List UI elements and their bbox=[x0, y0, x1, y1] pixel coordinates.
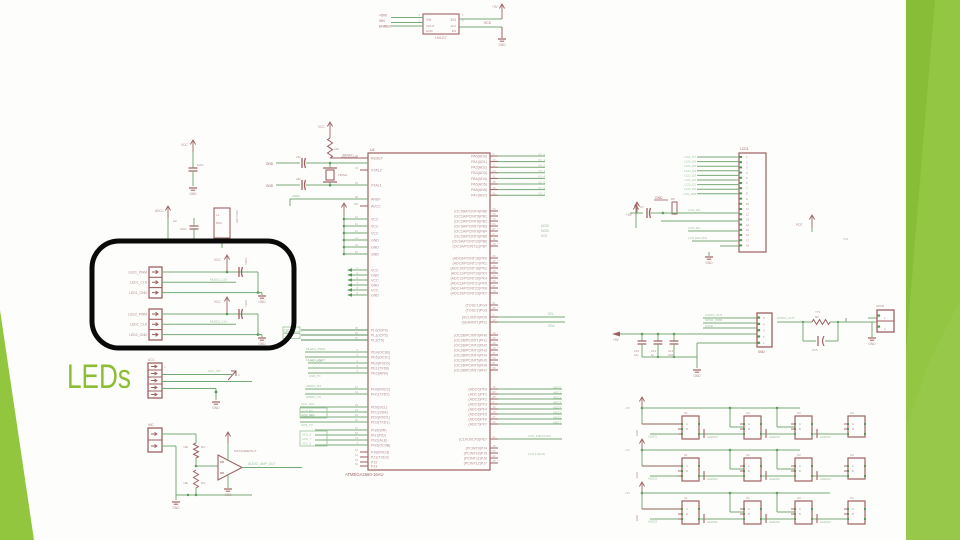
svg-text:ALED2: ALED2 bbox=[648, 477, 658, 481]
wire SDA out bbox=[498, 321, 565, 323]
wire row 2 link 2 bbox=[812, 475, 848, 477]
svg-text:100n: 100n bbox=[197, 163, 204, 167]
svg-text:PH0(RXD2): PH0(RXD2) bbox=[371, 387, 390, 391]
svg-text:AVCC: AVCC bbox=[371, 204, 381, 208]
svg-text:PA5(AD5): PA5(AD5) bbox=[471, 182, 487, 186]
svg-text:TA6: TA6 bbox=[843, 237, 849, 241]
wire audio rc bbox=[777, 321, 812, 323]
gnd C3 bbox=[189, 187, 197, 189]
svg-text:+5V: +5V bbox=[626, 213, 633, 217]
svg-text:ALED13: ALED13 bbox=[769, 435, 780, 439]
svg-text:LCD_D5: LCD_D5 bbox=[684, 164, 696, 168]
svg-text:ADC0: ADC0 bbox=[553, 385, 561, 389]
svg-text:MIC: MIC bbox=[148, 423, 155, 427]
svg-text:U1: U1 bbox=[370, 148, 375, 152]
capacitor C4 bbox=[167, 218, 169, 226]
wire mic top bbox=[162, 433, 196, 435]
svg-text:(ADC4)PF4: (ADC4)PF4 bbox=[468, 407, 487, 411]
svg-text:(OC2B/PCINT3)PH3: (OC2B/PCINT3)PH3 bbox=[454, 348, 487, 352]
wire LCD led2 bbox=[720, 245, 739, 247]
svg-text:PL0(ICP4): PL0(ICP4) bbox=[371, 328, 388, 332]
svg-text:ADJ: ADJ bbox=[450, 24, 456, 28]
svg-text:PD0(SCL): PD0(SCL) bbox=[371, 405, 387, 409]
svg-text:PE2(AIN0): PE2(AIN0) bbox=[371, 371, 388, 375]
svg-text:ISP: ISP bbox=[285, 328, 290, 332]
svg-text:VCC: VCC bbox=[371, 231, 379, 235]
vcc arrow P1 bbox=[192, 140, 194, 162]
wire opamp out bbox=[242, 467, 302, 469]
svg-text:C7: C7 bbox=[640, 205, 644, 209]
U1 left pin stubs and labels bbox=[360, 157, 368, 159]
svg-text:81: 81 bbox=[493, 301, 497, 305]
capacitor C3 bbox=[192, 152, 194, 168]
svg-text:(OC1A/PCINT11)PB7: (OC1A/PCINT11)PB7 bbox=[453, 244, 487, 248]
vcc arrow row 3 bbox=[641, 482, 643, 493]
svg-text:PD2(RXD1): PD2(RXD1) bbox=[371, 415, 390, 419]
svg-text:(SCL/INT0)PD0: (SCL/INT0)PD0 bbox=[462, 315, 487, 319]
vcc arrow POT bbox=[811, 215, 813, 232]
svg-text:+5V_USB: +5V_USB bbox=[309, 359, 322, 363]
svg-text:(SDA/INT1)PD1: (SDA/INT1)PD1 bbox=[461, 320, 487, 324]
wire LCD rw bbox=[661, 220, 739, 222]
svg-text:PE1(TXD0): PE1(TXD0) bbox=[371, 366, 389, 370]
svg-text:PA0(AD0): PA0(AD0) bbox=[471, 154, 487, 158]
svg-text:VOUT: VOUT bbox=[426, 24, 435, 28]
svg-text:48: 48 bbox=[493, 444, 497, 448]
svg-text:GND: GND bbox=[693, 374, 701, 378]
svg-text:LCD_RS: LCD_RS bbox=[302, 409, 313, 413]
svg-text:B: B bbox=[748, 512, 750, 516]
crystal Q1 bbox=[326, 170, 334, 180]
svg-text:100n: 100n bbox=[244, 300, 248, 307]
svg-text:GND: GND bbox=[371, 283, 379, 287]
svg-text:AUDIO_TX: AUDIO_TX bbox=[306, 395, 321, 399]
svg-text:(OC2B/PCINT4)PH4: (OC2B/PCINT4)PH4 bbox=[454, 353, 487, 357]
wire rail drop U3 row 3 bbox=[776, 492, 779, 495]
svg-text:A: A bbox=[748, 422, 750, 426]
svg-text:U4: U4 bbox=[850, 453, 854, 457]
vcc arrow crystal bbox=[329, 122, 331, 138]
svg-text:LCD_EN: LCD_EN bbox=[688, 226, 700, 230]
svg-text:73: 73 bbox=[493, 217, 497, 221]
wire mic bottom bbox=[162, 445, 176, 447]
svg-text:(ADC15/PCINT23)PK7: (ADC15/PCINT23)PK7 bbox=[450, 291, 487, 295]
wire snd 1 bbox=[703, 317, 757, 319]
svg-text:U3: U3 bbox=[797, 411, 801, 415]
svg-text:GND: GND bbox=[371, 252, 379, 256]
svg-text:14: 14 bbox=[746, 223, 750, 227]
svg-text:59: 59 bbox=[493, 207, 497, 211]
wire rail row 3 bbox=[642, 492, 830, 494]
wire PL0 bbox=[301, 329, 368, 331]
vcc arrow 3V3 bbox=[501, 4, 503, 19]
wire to spkr bbox=[846, 321, 877, 323]
wire RXD0 bbox=[308, 362, 368, 364]
svg-text:(OC1A/PCINT5)PB1: (OC1A/PCINT5)PB1 bbox=[454, 214, 487, 218]
wire rail drop U2 row 1 bbox=[729, 407, 732, 410]
svg-text:ALED24: ALED24 bbox=[820, 477, 831, 481]
svg-text:B: B bbox=[852, 427, 854, 431]
svg-text:16MHz: 16MHz bbox=[338, 173, 348, 177]
svg-text:VCC: VCC bbox=[371, 224, 379, 228]
svg-text:(OC2B/PCINT2)PH2: (OC2B/PCINT2)PH2 bbox=[454, 343, 487, 347]
svg-text:AV: AV bbox=[173, 219, 177, 223]
svg-text:PA7(AD7): PA7(AD7) bbox=[471, 194, 487, 198]
svg-text:61: 61 bbox=[493, 361, 497, 365]
svg-text:A: A bbox=[748, 507, 750, 511]
svg-text:(OC2A/PCINT6)PB2: (OC2A/PCINT6)PB2 bbox=[454, 219, 487, 223]
svg-text:AREF: AREF bbox=[371, 197, 381, 201]
green input arrows PE bbox=[352, 269, 368, 271]
svg-text:(ADC6)PF6: (ADC6)PF6 bbox=[468, 417, 487, 421]
gnd opamp bbox=[227, 474, 229, 488]
svg-text:46: 46 bbox=[493, 269, 497, 273]
svg-text:(OC2A/PCINT9)PB5: (OC2A/PCINT9)PB5 bbox=[454, 234, 487, 238]
svg-text:AUDIO_OUT: AUDIO_OUT bbox=[705, 313, 723, 317]
regulator IC2 box bbox=[423, 14, 459, 34]
wire LED2 pwm bbox=[162, 313, 258, 315]
wire caps bottom rail bbox=[642, 356, 697, 358]
op-amp U3 bbox=[218, 455, 242, 480]
svg-text:88: 88 bbox=[493, 306, 497, 310]
svg-text:IO_6: IO_6 bbox=[538, 186, 545, 190]
svg-text:USB_TX: USB_TX bbox=[309, 374, 321, 378]
svg-text:LED2_GND: LED2_GND bbox=[129, 333, 147, 337]
wire SCL bbox=[300, 406, 368, 408]
svg-text:10k: 10k bbox=[183, 481, 188, 485]
wire rail drop U3 row 1 bbox=[776, 407, 779, 410]
svg-text:68: 68 bbox=[493, 366, 497, 370]
wire LED1 cap to gnd bbox=[243, 271, 259, 273]
resistor R3 bbox=[194, 443, 199, 458]
svg-text:+5V: +5V bbox=[625, 406, 630, 410]
svg-text:12: 12 bbox=[746, 212, 750, 216]
svg-text:GATE: GATE bbox=[705, 324, 713, 328]
connector LCD1 bbox=[739, 153, 766, 252]
svg-text:PA4(AD4): PA4(AD4) bbox=[471, 177, 487, 181]
svg-text:ALED1: ALED1 bbox=[648, 435, 658, 439]
svg-text:82: 82 bbox=[493, 390, 497, 394]
wire row 2 in dark bbox=[642, 465, 682, 467]
svg-text:VCC: VCC bbox=[214, 300, 221, 304]
svg-text:(ADC10/PCINT18)PK2: (ADC10/PCINT18)PK2 bbox=[450, 266, 487, 270]
svg-text:VIN: VIN bbox=[426, 18, 432, 22]
svg-text:(OC0A/PCINT4)PB0: (OC0A/PCINT4)PB0 bbox=[454, 209, 487, 213]
svg-text:(TOSC2)PG3: (TOSC2)PG3 bbox=[465, 308, 487, 312]
svg-text:LCD_EN: LCD_EN bbox=[302, 414, 313, 418]
connector LED1 bbox=[149, 267, 162, 298]
svg-text:54: 54 bbox=[493, 356, 497, 360]
bus label boxes ISP bbox=[283, 327, 300, 332]
wire ACC gnd bbox=[162, 388, 216, 390]
op U1 main MCU box bbox=[368, 153, 490, 470]
op U13 driver box bbox=[848, 416, 865, 437]
wire TXD2 bbox=[305, 393, 368, 395]
svg-text:GND: GND bbox=[266, 184, 274, 188]
wire LCD led bbox=[692, 240, 739, 242]
wire LCD en bbox=[688, 230, 739, 232]
svg-text:ADC6: ADC6 bbox=[553, 415, 561, 419]
svg-text:LCD LED (5V): LCD LED (5V) bbox=[688, 236, 707, 240]
svg-text:19: 19 bbox=[493, 331, 497, 335]
wire row 2 in light bbox=[650, 475, 682, 477]
svg-text:100n: 100n bbox=[244, 258, 248, 265]
svg-text:PJ0(RXD3): PJ0(RXD3) bbox=[371, 450, 389, 454]
op U31 driver box bbox=[744, 501, 761, 524]
svg-text:VCC: VCC bbox=[318, 125, 325, 129]
svg-text:(PCINT12)PJ7: (PCINT12)PJ7 bbox=[464, 461, 487, 465]
svg-text:C15: C15 bbox=[812, 348, 818, 352]
wire LED1 pwm bbox=[162, 271, 258, 273]
svg-text:+5V: +5V bbox=[625, 491, 630, 495]
resistor R4 bbox=[194, 470, 199, 488]
svg-text:ACC_INT: ACC_INT bbox=[208, 369, 221, 373]
wire row 3 in dark bbox=[642, 508, 682, 510]
svg-text:18: 18 bbox=[493, 242, 497, 246]
bus label box ACC2 bbox=[300, 431, 327, 446]
connector SPK bbox=[148, 428, 162, 452]
wire vcc drop row 3 bbox=[641, 493, 643, 509]
wire ACC sda bbox=[162, 381, 252, 383]
capacitor LED1 bbox=[238, 267, 240, 277]
svg-text:SPKR: SPKR bbox=[876, 304, 885, 308]
svg-text:17: 17 bbox=[493, 163, 497, 167]
capacitor C10 bbox=[641, 333, 644, 336]
svg-text:R3: R3 bbox=[201, 445, 205, 449]
svg-text:52: 52 bbox=[493, 191, 497, 195]
wire row 1 link 0 bbox=[699, 433, 744, 435]
svg-text:GND: GND bbox=[868, 342, 876, 346]
svg-text:B: B bbox=[686, 427, 688, 431]
svg-text:PA1(AD1): PA1(AD1) bbox=[471, 160, 487, 164]
svg-text:GND: GND bbox=[189, 192, 197, 196]
right green band bbox=[906, 0, 960, 540]
wire LED2 clk bbox=[162, 323, 236, 325]
svg-text:80: 80 bbox=[493, 222, 497, 226]
wire row 1 link 2 bbox=[812, 433, 848, 435]
capacitor C14 bbox=[673, 333, 676, 336]
svg-text:GND: GND bbox=[258, 300, 266, 304]
svg-text:GND: GND bbox=[371, 273, 379, 277]
svg-text:VIN: VIN bbox=[379, 19, 385, 23]
svg-text:AUDIO_AMP_OUT: AUDIO_AMP_OUT bbox=[248, 462, 275, 466]
highlight rounded box bbox=[92, 241, 294, 348]
svg-text:GND: GND bbox=[426, 29, 434, 33]
svg-text:ATMEGA2560-16AU: ATMEGA2560-16AU bbox=[345, 472, 384, 477]
vcc cluster wires bbox=[343, 203, 345, 215]
svg-text:ALED3: ALED3 bbox=[648, 520, 658, 524]
svg-text:GND: GND bbox=[655, 196, 663, 200]
svg-text:(PCINT10)PJ5: (PCINT10)PJ5 bbox=[464, 451, 487, 455]
svg-text:24: 24 bbox=[493, 169, 497, 173]
svg-text:GND: GND bbox=[371, 293, 379, 297]
wire regulator input 1 bbox=[391, 17, 423, 19]
svg-text:ACC_X: ACC_X bbox=[302, 433, 311, 437]
svg-text:55: 55 bbox=[493, 449, 497, 453]
svg-text:B: B bbox=[852, 469, 854, 473]
svg-text:XTAL2: XTAL2 bbox=[371, 168, 382, 172]
svg-text:67: 67 bbox=[493, 284, 497, 288]
svg-text:GND: GND bbox=[705, 261, 713, 265]
svg-text:22p: 22p bbox=[296, 177, 301, 181]
svg-text:ADC7: ADC7 bbox=[553, 420, 561, 424]
svg-text:A: A bbox=[686, 464, 688, 468]
svg-text:LCD_D6: LCD_D6 bbox=[684, 160, 696, 164]
svg-text:PG1(RD): PG1(RD) bbox=[371, 433, 386, 437]
svg-text:(ADC3)PF3: (ADC3)PF3 bbox=[468, 402, 487, 406]
op U30 driver box bbox=[682, 501, 699, 524]
svg-text:33: 33 bbox=[493, 341, 497, 345]
svg-text:64: 64 bbox=[355, 453, 359, 457]
svg-text:GND: GND bbox=[371, 238, 379, 242]
wire ACC int bbox=[162, 374, 232, 376]
svg-text:10: 10 bbox=[746, 202, 750, 206]
gnd LED1 bbox=[261, 293, 263, 295]
svg-text:SCK: SCK bbox=[541, 234, 548, 238]
svg-text:PE0(RXD0): PE0(RXD0) bbox=[371, 361, 390, 365]
svg-text:VCC: VCC bbox=[214, 258, 221, 262]
svg-text:26: 26 bbox=[493, 336, 497, 340]
svg-text:A: A bbox=[799, 507, 801, 511]
svg-text:ADC5: ADC5 bbox=[553, 410, 561, 414]
svg-text:(OC2B/PCINT0)PH0: (OC2B/PCINT0)PH0 bbox=[454, 333, 487, 337]
wire RXD2 bbox=[305, 388, 368, 390]
trimmer R5 bbox=[672, 202, 677, 214]
svg-text:PG5(OC0B): PG5(OC0B) bbox=[371, 443, 390, 447]
svg-text:IO_3: IO_3 bbox=[538, 169, 545, 173]
svg-text:66: 66 bbox=[493, 212, 497, 216]
left green wedge bbox=[0, 310, 34, 540]
svg-text:87: 87 bbox=[493, 227, 497, 231]
svg-text:GPS_TX: GPS_TX bbox=[301, 423, 313, 427]
svg-text:PH1(TXD2): PH1(TXD2) bbox=[371, 392, 390, 396]
svg-text:66: 66 bbox=[355, 462, 359, 466]
svg-text:A: A bbox=[686, 507, 688, 511]
svg-text:34: 34 bbox=[355, 166, 359, 170]
wire OC0B bbox=[315, 444, 368, 446]
capacitor C1 bbox=[276, 162, 300, 164]
wire RD bbox=[315, 434, 368, 436]
svg-text:ENREG: ENREG bbox=[379, 25, 391, 29]
svg-text:A: A bbox=[852, 507, 854, 511]
op U23 driver box bbox=[848, 458, 865, 479]
svg-text:47: 47 bbox=[493, 351, 497, 355]
svg-text:VCC: VCC bbox=[371, 268, 379, 272]
connector ACC bbox=[148, 363, 162, 398]
svg-text:3V3: 3V3 bbox=[450, 18, 456, 22]
svg-text:ALED12: ALED12 bbox=[707, 435, 718, 439]
wire row 2 link 1 bbox=[761, 475, 795, 477]
svg-text:+5V0: +5V0 bbox=[379, 14, 387, 18]
svg-text:LCD 1.8(3.3): LCD 1.8(3.3) bbox=[528, 452, 545, 456]
svg-text:+5V: +5V bbox=[625, 448, 630, 452]
wire LED1 gnd bbox=[162, 292, 262, 294]
wire WR bbox=[315, 429, 368, 431]
svg-text:B: B bbox=[799, 512, 801, 516]
svg-text:15: 15 bbox=[746, 228, 750, 232]
svg-text:IO_0: IO_0 bbox=[538, 152, 545, 156]
gnd LED2 bbox=[261, 335, 263, 337]
svg-text:ADC1: ADC1 bbox=[553, 390, 561, 394]
svg-text:IO_4: IO_4 bbox=[538, 175, 545, 179]
wire PL2 bbox=[301, 339, 368, 341]
svg-text:LCD_RS: LCD_RS bbox=[688, 208, 700, 212]
svg-text:LEDs: LEDs bbox=[67, 358, 131, 396]
wire row 1 in light bbox=[650, 433, 682, 435]
op U33 driver box bbox=[848, 501, 865, 524]
wire row 2 link 0 bbox=[699, 475, 744, 477]
svg-text:89: 89 bbox=[493, 395, 497, 399]
svg-text:MLED1_CLK: MLED1_CLK bbox=[210, 278, 228, 282]
svg-text:12: 12 bbox=[493, 318, 497, 322]
svg-text:VCC: VCC bbox=[371, 288, 379, 292]
wire snd 2 bbox=[703, 322, 757, 324]
svg-text:(ADC12/PCINT20)PK4: (ADC12/PCINT20)PK4 bbox=[450, 276, 487, 280]
wire vcc drop row 2 bbox=[641, 450, 643, 466]
svg-text:63: 63 bbox=[355, 448, 359, 452]
op U22 driver box bbox=[795, 458, 812, 481]
svg-text:MOSI: MOSI bbox=[541, 229, 549, 233]
svg-text:ADXL335: ADXL335 bbox=[235, 210, 239, 223]
wire RXD1 bbox=[300, 416, 368, 418]
svg-text:B: B bbox=[748, 469, 750, 473]
svg-text:(ADC5)PF5: (ADC5)PF5 bbox=[468, 412, 487, 416]
svg-text:(ADC7)PF7: (ADC7)PF7 bbox=[468, 422, 487, 426]
svg-text:32: 32 bbox=[493, 259, 497, 263]
svg-text:A: A bbox=[686, 422, 688, 426]
svg-text:(OC2B/PCINT1)PH1: (OC2B/PCINT1)PH1 bbox=[454, 338, 487, 342]
svg-text:BLM: BLM bbox=[216, 221, 222, 225]
vcc arrow LED1 bbox=[226, 255, 228, 272]
svg-text:10u: 10u bbox=[634, 353, 639, 357]
gnd caps bbox=[696, 357, 698, 368]
resistor R2 bbox=[328, 138, 333, 158]
svg-text:IO_7: IO_7 bbox=[538, 192, 545, 196]
wire LED2 gnd bbox=[162, 334, 262, 336]
svg-text:RESET: RESET bbox=[371, 156, 384, 160]
wire snd gate bbox=[697, 342, 757, 344]
svg-text:53: 53 bbox=[493, 274, 497, 278]
svg-text:+3V: +3V bbox=[492, 5, 499, 9]
svg-text:PA2(AD2): PA2(AD2) bbox=[471, 166, 487, 170]
svg-text:PJ1(TXD3): PJ1(TXD3) bbox=[371, 455, 389, 459]
vcc arrow opamp bbox=[227, 432, 229, 455]
svg-text:(OC0A/PCINT10)PB6: (OC0A/PCINT10)PB6 bbox=[452, 239, 487, 243]
svg-text:B: B bbox=[799, 469, 801, 473]
svg-text:(ADC2)PF2: (ADC2)PF2 bbox=[468, 397, 487, 401]
svg-text:U1: U1 bbox=[684, 411, 688, 415]
svg-text:U1: U1 bbox=[684, 496, 688, 500]
svg-text:11: 11 bbox=[493, 237, 496, 241]
op U32 driver box bbox=[795, 501, 812, 524]
wire rc loop bbox=[830, 321, 846, 323]
svg-text:GND: GND bbox=[224, 493, 232, 497]
wire LCD enable bbox=[498, 438, 562, 440]
connector LED2 bbox=[149, 309, 162, 340]
svg-text:45: 45 bbox=[493, 186, 497, 190]
svg-text:R4: R4 bbox=[201, 481, 205, 485]
svg-text:22p: 22p bbox=[296, 155, 301, 159]
svg-text:(ADC11/PCINT19)PK3: (ADC11/PCINT19)PK3 bbox=[451, 271, 487, 275]
wire filter leads bbox=[167, 226, 169, 240]
svg-text:17: 17 bbox=[746, 238, 750, 242]
svg-text:62: 62 bbox=[493, 454, 497, 458]
svg-text:(TOSC1)PG4: (TOSC1)PG4 bbox=[465, 303, 487, 307]
svg-text:A: A bbox=[852, 422, 854, 426]
wire AIN0 bbox=[308, 372, 368, 374]
svg-text:SCL: SCL bbox=[548, 312, 554, 316]
op U20 driver box bbox=[682, 458, 699, 481]
